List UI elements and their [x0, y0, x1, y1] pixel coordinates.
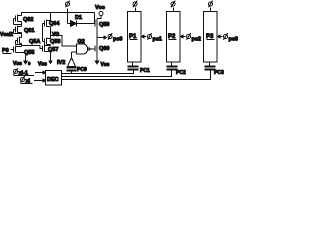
node phipc2 arrow — [181, 35, 184, 38]
svg-text:PC3: PC3 — [214, 70, 224, 76]
wire rail down to D1 cathode — [94, 13, 96, 24]
svg-text:pc1: pc1 — [153, 37, 162, 43]
svg-text:PC2: PC2 — [176, 70, 186, 76]
svg-text:DEC: DEC — [47, 77, 59, 83]
svg-text:Q57: Q57 — [48, 47, 58, 53]
svg-text:PC0: PC0 — [77, 67, 87, 73]
wire Q60 source to Vss — [96, 53, 98, 63]
wire rail to Q62 — [21, 13, 23, 16]
transistor Q58 — [43, 38, 51, 45]
wire bus line 2 — [62, 71, 172, 77]
svg-text:Vcc/2: Vcc/2 — [0, 32, 13, 38]
svg-text:Q60: Q60 — [99, 46, 109, 52]
wire Q55 source to Vss0 — [25, 53, 27, 63]
svg-text:G2: G2 — [78, 39, 85, 45]
node phi0 input — [65, 1, 69, 8]
svg-text:Vss: Vss — [38, 62, 47, 68]
svg-text:Q5A: Q5A — [29, 39, 40, 45]
svg-text:pc0: pc0 — [113, 37, 122, 43]
wire Q61 source chain — [21, 33, 23, 38]
svg-text:Q61: Q61 — [24, 28, 34, 34]
svg-text:D1: D1 — [75, 15, 82, 21]
node phipc1 arrow — [142, 35, 145, 38]
svg-text:IV2: IV2 — [57, 60, 65, 66]
transistor Q60 — [95, 45, 97, 53]
capacitor PC0 — [67, 68, 77, 74]
wire Q57 source to Vss — [50, 52, 52, 63]
wire Q5A source chain / node to Q57 gate — [21, 44, 23, 47]
diode D1 — [68, 21, 96, 27]
svg-text:Q59: Q59 — [99, 22, 109, 28]
svg-text:Q62: Q62 — [23, 17, 33, 23]
svg-text:Vss: Vss — [101, 62, 110, 68]
wire top rail — [21, 12, 95, 14]
capacitor PC3 — [205, 63, 216, 70]
wire Q57 gate from P0 chain — [40, 46, 43, 49]
wire bus line 3 — [62, 71, 211, 80]
transistor Q62 — [14, 15, 22, 25]
capacitor PC1 — [128, 63, 139, 71]
svg-text:0: 0 — [28, 61, 31, 66]
electrode P1 — [128, 12, 142, 63]
svg-text:pc2: pc2 — [192, 37, 201, 43]
node phi xi input — [20, 76, 24, 83]
svg-text:PC1: PC1 — [140, 68, 150, 74]
svg-text:Vcc: Vcc — [95, 5, 105, 11]
node phi xi-1 input — [13, 68, 17, 75]
electrode P3 — [204, 12, 218, 63]
node phi over P2 — [171, 1, 175, 8]
logic gate G2 — [72, 44, 96, 54]
wire Q59 source to output node — [96, 28, 98, 45]
wire bus line 1 — [62, 71, 134, 74]
svg-text:Vss: Vss — [13, 61, 22, 67]
node output phipc0 — [97, 37, 105, 39]
node phi over P3 — [208, 1, 212, 8]
box DEC — [46, 71, 62, 86]
svg-text:Q58: Q58 — [50, 39, 60, 45]
inverter IV2 — [68, 52, 76, 68]
wire Q58 source chain — [50, 45, 52, 46]
node phipc3 arrow — [218, 35, 221, 38]
svg-text:Q64: Q64 — [49, 21, 60, 27]
svg-text:pc3: pc3 — [229, 37, 238, 43]
wire Q64 gate to Q58 gate — [42, 24, 44, 42]
transistor Q64 — [43, 20, 51, 27]
transistor Q57 — [43, 45, 51, 52]
transistor Q61 — [14, 26, 22, 34]
wire VG node to G2 upper input — [51, 36, 77, 47]
node phi over P1 — [133, 1, 137, 8]
wire Q62 source chain — [21, 22, 23, 27]
wire rail to Q64 — [50, 13, 52, 21]
transistor Q55 — [14, 46, 26, 53]
electrode P2 — [167, 12, 181, 63]
transistor Q59 — [95, 19, 97, 28]
transistor Q5A — [16, 37, 22, 45]
capacitor PC2 — [167, 63, 178, 70]
